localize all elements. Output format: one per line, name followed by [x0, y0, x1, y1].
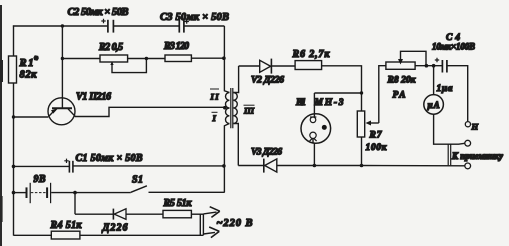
- wire transformer primary top lead: [224, 26, 229, 93]
- svg-text:10мк×100В: 10мк×100В: [432, 42, 475, 52]
- wire second rail middle: [128, 58, 165, 60]
- resistor R3: [165, 55, 191, 62]
- svg-text:РА: РА: [393, 91, 406, 101]
- wire lamp bottom lead: [312, 139, 314, 144]
- meter PA microammeter: [424, 66, 444, 115]
- wire second rail left: [62, 58, 100, 60]
- wire diode to R5: [126, 213, 163, 215]
- node R7 bottom junction: [360, 164, 364, 168]
- svg-text:Д226: Д226: [102, 223, 128, 234]
- wire V2 to R6: [271, 65, 295, 67]
- node C1 rail right junction: [222, 164, 226, 168]
- wire emitter to left vertical: [14, 116, 49, 118]
- resistor R4: [51, 231, 80, 239]
- resistor R1: [9, 56, 17, 83]
- wire battery rail left: [14, 192, 27, 194]
- svg-text:~220 В: ~220 В: [217, 218, 253, 229]
- wire transformer primary bottom lead: [224, 124, 229, 193]
- switch S1 lever: [131, 186, 147, 193]
- capacitor C3: [179, 19, 189, 32]
- wire lamp top line: [314, 92, 361, 94]
- svg-text:μА: μА: [427, 100, 440, 110]
- svg-text:МН-3: МН-3: [314, 98, 344, 108]
- svg-text:R3 120: R3 120: [163, 41, 189, 52]
- transformer winding II: [226, 93, 230, 109]
- node right vertical junction: [222, 56, 226, 60]
- wire mains connector verticals: [200, 214, 203, 235]
- wire lamp top lead: [313, 93, 315, 117]
- resistor R2: [100, 55, 128, 62]
- svg-text:С3 50мк × 50В: С3 50мк × 50В: [160, 12, 229, 23]
- wire collector with step: [75, 107, 226, 116]
- capacitor C1: [64, 159, 73, 173]
- wire battery rail right: [51, 192, 131, 194]
- svg-text:С2 50мк × 50В: С2 50мк × 50В: [68, 7, 129, 18]
- label III: [243, 105, 255, 115]
- wire left vertical top segment: [13, 25, 15, 56]
- node R8 wiper junction: [425, 64, 429, 68]
- svg-text:9В: 9В: [34, 174, 46, 185]
- wire C4 to H terminal: [447, 66, 467, 122]
- svg-text:V3 Д226: V3 Д226: [251, 148, 282, 158]
- wire winding III bottom lead: [233, 124, 238, 166]
- wire charger diode line left: [75, 213, 113, 215]
- wire meter bottom lead: [434, 114, 465, 144]
- svg-text:1μа: 1μа: [437, 84, 453, 94]
- svg-text:82к: 82к: [20, 70, 38, 81]
- node R2 tap junction: [145, 57, 148, 60]
- svg-text:R7: R7: [369, 131, 383, 141]
- capacitor C4: [435, 58, 447, 73]
- wire R5 to mains corner: [191, 213, 203, 215]
- wire bottom line right: [362, 165, 465, 167]
- wire R6 to corner: [322, 66, 362, 111]
- svg-text:R1: R1: [19, 58, 34, 69]
- wiper R7 arm: [368, 122, 379, 124]
- svg-text:*: *: [34, 55, 39, 65]
- node lamp bottom junction: [313, 164, 317, 168]
- svg-text:И1: И1: [295, 98, 306, 108]
- svg-text:К приемнику: К приемнику: [451, 151, 504, 161]
- wire R7 wiper to R8: [379, 66, 386, 123]
- resistor R7 (potentiometer): [357, 111, 364, 137]
- node battery rail left junction: [12, 191, 16, 195]
- mains arrow lower: [203, 227, 219, 238]
- label I: [212, 112, 218, 123]
- svg-text:Н: Н: [471, 122, 479, 132]
- transistor V1 П216: [48, 98, 75, 125]
- wire rheostat R2 tap loop: [112, 59, 146, 73]
- wire left vertical lower segment: [13, 83, 15, 236]
- svg-text:III: III: [243, 106, 255, 116]
- node charger branch junction: [73, 191, 77, 195]
- node base rail junction: [61, 24, 64, 27]
- svg-text:R5 51к: R5 51к: [163, 198, 193, 209]
- diode Д226 (charger): [113, 209, 126, 220]
- terminal H: [465, 122, 470, 127]
- terminal К приемнику upper: [465, 140, 471, 146]
- wire base vertical: [61, 26, 63, 108]
- transformer winding III: [233, 93, 237, 124]
- svg-text:R2 0,5: R2 0,5: [98, 42, 123, 53]
- wiper R8 loop: [401, 51, 427, 65]
- svg-text:V2 Д226: V2 Д226: [251, 76, 284, 86]
- resistor R8 (rheostat): [386, 62, 415, 69]
- svg-text:I: I: [212, 113, 217, 123]
- svg-text:S1: S1: [132, 175, 143, 186]
- wire charger branch vertical: [74, 193, 76, 215]
- wire bottom rail right: [80, 234, 203, 236]
- label II: [210, 89, 220, 102]
- wire C1 rail right: [73, 165, 224, 167]
- terminal К приемнику lower: [465, 163, 471, 169]
- svg-text:С1 50мк × 50В: С1 50мк × 50В: [76, 153, 143, 164]
- transformer winding I: [226, 108, 230, 124]
- wire second rail right: [191, 57, 224, 59]
- left scan edge artifact: [0, 5, 2, 246]
- node lamp line junction: [360, 91, 363, 94]
- wire R7 bottom lead: [361, 137, 363, 166]
- svg-text:R8 20к: R8 20к: [387, 76, 417, 86]
- resistor R6: [295, 61, 322, 70]
- wiper arrow R2: [110, 62, 113, 65]
- node C1 rail left junction: [12, 165, 16, 169]
- node second rail left junction: [61, 57, 64, 60]
- capacitor C2: [101, 19, 113, 33]
- svg-text:II: II: [210, 92, 220, 102]
- battery GB 9В: [27, 183, 51, 203]
- diode V2 Д226: [260, 59, 272, 74]
- wire winding III top lead: [233, 66, 238, 93]
- svg-text:100к: 100к: [366, 143, 388, 153]
- wiper arrow R8: [398, 59, 403, 65]
- wire top rail: [13, 25, 108, 27]
- svg-text:R6 2,7к: R6 2,7к: [292, 49, 331, 60]
- connector jack bars: [448, 144, 451, 165]
- node meter top junction: [432, 64, 436, 68]
- resistor R5: [163, 210, 191, 217]
- svg-text:V1 П216: V1 П216: [76, 92, 111, 103]
- wire bottom line middle: [277, 165, 362, 167]
- svg-text:R4 51к: R4 51к: [50, 220, 83, 231]
- diode V3 Д226: [264, 159, 277, 173]
- mains arrow upper: [203, 207, 219, 218]
- wire top rail right: [184, 25, 224, 27]
- lamp И1 МН-3: [301, 114, 331, 144]
- wire C1 rail: [14, 165, 70, 167]
- wire bottom rail left: [14, 234, 52, 236]
- wire R8 right lead: [415, 65, 442, 67]
- wire V2 line left: [239, 65, 260, 67]
- wire top rail middle: [114, 25, 179, 27]
- node collector tap on winding: [223, 106, 227, 110]
- transformer core: [231, 88, 233, 128]
- wire bottom line left: [238, 165, 263, 167]
- node emitter wire junction: [12, 115, 15, 118]
- wire S1 rail right: [149, 191, 225, 193]
